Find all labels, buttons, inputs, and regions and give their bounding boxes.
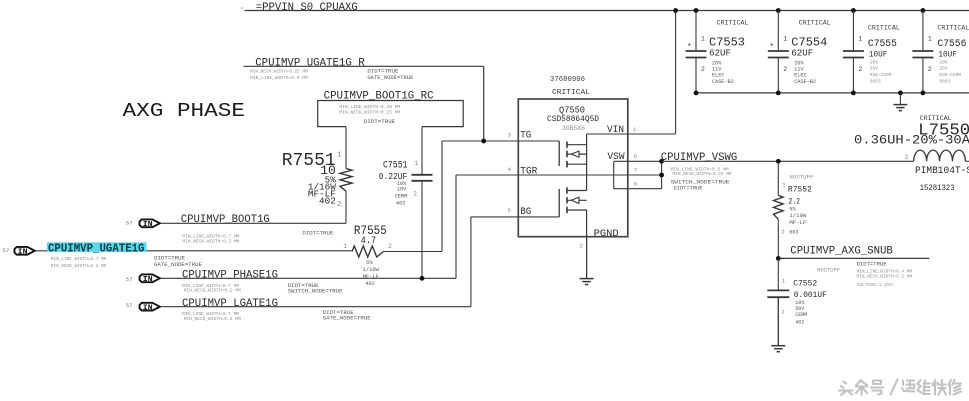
svg-text:SWITCH_NODE=TRUE: SWITCH_NODE=TRUE <box>288 287 344 294</box>
svg-text:2.2: 2.2 <box>789 198 801 207</box>
svg-text:2: 2 <box>701 66 705 73</box>
svg-text:11V: 11V <box>712 67 722 73</box>
svg-text:Q7550: Q7550 <box>559 105 585 115</box>
svg-text:0603: 0603 <box>870 79 881 85</box>
svg-text:CPUIMVP_PHASE1G: CPUIMVP_PHASE1G <box>182 269 278 281</box>
svg-text:2: 2 <box>858 66 862 73</box>
svg-text:MIN_NECK_WIDTH=0.25 MM: MIN_NECK_WIDTH=0.25 MM <box>250 68 308 74</box>
svg-text:2: 2 <box>413 190 417 197</box>
svg-text:v: v <box>241 7 244 12</box>
svg-text:*: * <box>769 43 774 52</box>
svg-text:1: 1 <box>928 35 932 42</box>
svg-text:C7551: C7551 <box>383 160 408 171</box>
svg-text:IN: IN <box>143 305 153 313</box>
svg-text:MIN_LINE_WIDTH=0.4 MM: MIN_LINE_WIDTH=0.4 MM <box>857 268 913 274</box>
svg-text:1: 1 <box>783 35 787 42</box>
svg-text:1: 1 <box>905 154 909 161</box>
svg-text:CPUIMVP_UGATE1G: CPUIMVP_UGATE1G <box>48 242 145 256</box>
svg-text:R36-CERM: R36-CERM <box>870 72 892 78</box>
svg-text:MIN_NECK_WIDTH=0.25 MM: MIN_NECK_WIDTH=0.25 MM <box>339 109 400 115</box>
svg-text:25V: 25V <box>870 66 878 72</box>
svg-text:3: 3 <box>508 132 511 139</box>
svg-text:CERM: CERM <box>795 312 807 318</box>
svg-text:2: 2 <box>781 228 784 235</box>
svg-text:=PPVIN_S0_CPUAXG: =PPVIN_S0_CPUAXG <box>256 2 358 14</box>
svg-text:TG: TG <box>520 130 531 141</box>
svg-text:CPUIMVP_BOOT1G: CPUIMVP_BOOT1G <box>181 214 270 226</box>
svg-text:CASE-B2: CASE-B2 <box>712 79 734 85</box>
svg-text:PGND: PGND <box>594 229 619 240</box>
svg-text:CSD58864Q5D: CSD58864Q5D <box>547 116 599 124</box>
svg-text:62UF: 62UF <box>791 47 813 58</box>
svg-text:TGR: TGR <box>520 167 537 178</box>
svg-text:AXG PHASE: AXG PHASE <box>123 100 246 122</box>
svg-text:2: 2 <box>783 66 787 73</box>
svg-text:62UF: 62UF <box>709 47 731 58</box>
svg-text:MIN_NECK_WIDTH=0.2 MM: MIN_NECK_WIDTH=0.2 MM <box>51 263 107 269</box>
svg-text:GATE_NODE=TRUE: GATE_NODE=TRUE <box>367 74 413 81</box>
svg-text:R7552: R7552 <box>788 186 812 195</box>
svg-text:57: 57 <box>2 247 9 254</box>
svg-text:1: 1 <box>701 35 705 42</box>
svg-text:402: 402 <box>396 201 406 207</box>
svg-text:MIN_LINE_WIDTH=0.38 MM: MIN_LINE_WIDTH=0.38 MM <box>339 104 400 110</box>
svg-text:10UF: 10UF <box>869 52 888 60</box>
svg-text:1: 1 <box>337 151 342 159</box>
svg-text:37680906: 37680906 <box>550 76 585 84</box>
svg-text:1: 1 <box>858 35 862 42</box>
svg-text:57: 57 <box>126 302 133 309</box>
svg-text:7: 7 <box>634 167 637 174</box>
svg-text:MIN_LINE_WIDTH=0.7 MM: MIN_LINE_WIDTH=0.7 MM <box>51 256 107 262</box>
svg-text:C7552: C7552 <box>793 279 817 288</box>
svg-text:1: 1 <box>343 243 347 250</box>
svg-text:MF-LF: MF-LF <box>789 220 806 226</box>
svg-text:2: 2 <box>388 243 392 250</box>
svg-text:CPUIMVP_AXG_SNUB: CPUIMVP_AXG_SNUB <box>790 245 893 257</box>
svg-text:CRITICAL: CRITICAL <box>552 89 590 97</box>
svg-text:11V: 11V <box>794 67 804 73</box>
svg-text:1: 1 <box>782 277 786 284</box>
svg-text:C7555: C7555 <box>868 38 897 49</box>
svg-text:10UF: 10UF <box>938 52 957 60</box>
svg-text:CASE-B2: CASE-B2 <box>794 79 816 85</box>
svg-text:MIN_NECK_WIDTH=0.2 MM: MIN_NECK_WIDTH=0.2 MM <box>857 274 913 280</box>
svg-text:20%: 20% <box>712 60 722 66</box>
svg-text:MIN_NECK_WIDTH=0.25 MM: MIN_NECK_WIDTH=0.25 MM <box>673 171 732 177</box>
svg-text:20%: 20% <box>794 60 804 66</box>
svg-text:CPUIMVP_VSWG: CPUIMVP_VSWG <box>661 152 738 164</box>
svg-text:CRITICAL: CRITICAL <box>799 20 831 27</box>
svg-text:NOSTUFF: NOSTUFF <box>817 268 840 274</box>
svg-text:C7556: C7556 <box>937 38 966 49</box>
svg-text:ELEC: ELEC <box>712 73 724 79</box>
svg-text:5%: 5% <box>789 206 796 212</box>
svg-text:DIDT=TRUE: DIDT=TRUE <box>302 230 334 237</box>
svg-text:CPUIMVP_LGATE1G: CPUIMVP_LGATE1G <box>182 298 278 310</box>
svg-text:IN: IN <box>18 249 28 257</box>
svg-text:402: 402 <box>365 281 375 287</box>
svg-text:20%: 20% <box>870 59 878 65</box>
svg-text:MIN_NECK_WIDTH=0.2 MM: MIN_NECK_WIDTH=0.2 MM <box>182 238 239 244</box>
svg-text:603: 603 <box>789 229 798 235</box>
svg-text:1: 1 <box>633 126 637 133</box>
svg-text:2: 2 <box>781 308 784 315</box>
svg-text:VOLTAGE=1.25V: VOLTAGE=1.25V <box>857 282 893 288</box>
svg-text:4: 4 <box>508 166 512 173</box>
svg-text:8: 8 <box>634 181 637 188</box>
svg-text:MF-LF: MF-LF <box>363 274 379 280</box>
svg-text:CRITICAL: CRITICAL <box>868 25 900 32</box>
svg-text:MIN_LINE_WIDTH=0.5 MM: MIN_LINE_WIDTH=0.5 MM <box>250 75 308 81</box>
svg-text:1: 1 <box>782 181 786 188</box>
svg-text:402: 402 <box>795 319 804 325</box>
svg-text:10V: 10V <box>397 187 407 193</box>
svg-text:DIDT=TRUE: DIDT=TRUE <box>674 185 703 192</box>
svg-text:DIDT=TRUE: DIDT=TRUE <box>857 261 887 268</box>
svg-text:0603: 0603 <box>939 79 950 85</box>
svg-text:1/16W: 1/16W <box>363 267 380 273</box>
svg-text:ELEC: ELEC <box>794 73 806 79</box>
svg-text:57: 57 <box>126 219 133 226</box>
svg-text:GATE_NODE=TRUE: GATE_NODE=TRUE <box>154 261 203 268</box>
svg-text:5%: 5% <box>366 260 373 266</box>
svg-text:20%: 20% <box>939 59 947 65</box>
svg-text:NOSTUFF: NOSTUFF <box>789 174 813 180</box>
svg-text:DIDT=TRUE: DIDT=TRUE <box>364 118 396 125</box>
svg-text:MIN_NECK_WIDTH=0.2 MM: MIN_NECK_WIDTH=0.2 MM <box>184 316 241 322</box>
svg-text:25V: 25V <box>939 66 947 72</box>
svg-text:BG: BG <box>520 207 531 218</box>
svg-text:15281323: 15281323 <box>920 185 955 193</box>
svg-text:PIMB104T-S: PIMB104T-S <box>915 165 969 177</box>
svg-text:402: 402 <box>319 195 336 206</box>
svg-text:*: * <box>687 43 692 52</box>
svg-text:30B5X6: 30B5X6 <box>562 125 585 132</box>
svg-text:MIN_NECK_WIDTH=0.2 MM: MIN_NECK_WIDTH=0.2 MM <box>184 287 241 293</box>
svg-text:1/10W: 1/10W <box>789 213 807 219</box>
svg-text:2: 2 <box>928 66 932 73</box>
svg-text:0.36UH-20%-30A: 0.36UH-20%-30A <box>854 133 969 148</box>
svg-text:CRITICAL: CRITICAL <box>937 25 969 32</box>
svg-text:1: 1 <box>414 160 418 167</box>
svg-text:R36-CERM: R36-CERM <box>939 72 961 78</box>
svg-text:CERM: CERM <box>394 194 407 200</box>
svg-text:CPUIMVP_UGATE1G_R: CPUIMVP_UGATE1G_R <box>255 57 365 69</box>
svg-text:5: 5 <box>508 207 511 214</box>
svg-text:IN: IN <box>143 276 153 284</box>
svg-text:IN: IN <box>143 221 153 229</box>
svg-text:2: 2 <box>580 243 583 250</box>
svg-text:GATE_NODE=TRUE: GATE_NODE=TRUE <box>323 315 372 322</box>
svg-text:6: 6 <box>634 153 637 160</box>
svg-text:57: 57 <box>126 276 133 283</box>
svg-text:CRITICAL: CRITICAL <box>717 20 749 27</box>
svg-text:2: 2 <box>337 201 342 209</box>
